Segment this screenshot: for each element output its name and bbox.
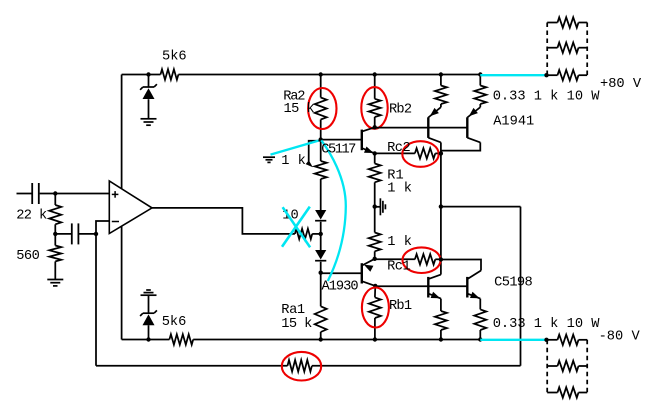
label 15 k (Ra1): [281, 317, 312, 332]
label 1 k (R1): [387, 182, 412, 197]
label 10: [282, 209, 298, 224]
node Rb2/C5117 collector: [373, 125, 377, 129]
pot wiper arrow: [306, 141, 320, 168]
node +80 box: [544, 73, 548, 77]
transistor A1930 Q2: [362, 259, 376, 286]
node R1/ground tap: [373, 204, 377, 208]
resistor Rc2: [415, 148, 435, 158]
label 5k6: [162, 50, 187, 65]
red circle Ra2: [308, 88, 336, 129]
capacitor input: [32, 183, 39, 204]
wire Rb1 leads: [374, 286, 376, 340]
resistor Rb1: [369, 297, 381, 318]
wire op-amp output: [152, 208, 295, 234]
transistor C5198 Q5: [428, 275, 441, 299]
wire 560 leads: [54, 234, 56, 279]
resistor 5k6 (bottom): [169, 334, 193, 344]
label C5198: [494, 276, 532, 291]
svg-text:1 k: 1 k: [387, 235, 412, 250]
transistor A1941 Q4: [441, 107, 480, 150]
svg-text:Rc2: Rc2: [387, 141, 410, 156]
dashed box -80 parallel resistors: [547, 340, 587, 393]
resistor top-box row1: [547, 17, 587, 27]
node top rail T2: [478, 72, 482, 76]
resistor 0.33 top-box row3: [547, 70, 587, 80]
svg-text:560: 560: [16, 249, 39, 264]
red circle Rb1: [362, 288, 389, 328]
red circle feedback resistor: [282, 352, 321, 381]
node output junction: [439, 204, 443, 208]
wire top +rail: [122, 74, 161, 76]
wire cap to op-amp +: [40, 193, 110, 195]
resistor T3 emitter: [435, 311, 447, 330]
label Ra1: [281, 303, 305, 318]
wire D1 to node: [320, 222, 322, 234]
ground below top zener: [141, 119, 157, 125]
wire Ra2 leads: [320, 75, 322, 140]
wire C5198 base bus: [375, 285, 467, 287]
label C5117: [321, 143, 356, 158]
label 0.33 1 k 10 W (bottom): [493, 317, 601, 332]
wire A1930 base: [321, 272, 362, 274]
label Rb1: [389, 299, 412, 314]
cyan wire pot to ground: [271, 141, 319, 155]
wire 10 ohm to node: [312, 233, 321, 235]
svg-text:1 k: 1 k: [387, 182, 412, 197]
wire feedback bottom left: [96, 365, 288, 367]
node 22k/560/cap2: [53, 232, 57, 236]
resistor Rc1: [415, 254, 435, 264]
svg-text:5k6: 5k6: [162, 50, 187, 65]
label Rb2: [389, 102, 412, 117]
label 1 k (pot): [281, 154, 306, 169]
wire zener2 top lead: [148, 295, 150, 313]
diode D1: [315, 210, 326, 221]
resistor 10 (crossed out): [295, 229, 312, 239]
wire T3 emitter leads: [440, 299, 442, 340]
dashed box +80 parallel resistors: [547, 23, 587, 76]
label 0.33 1 k 10 W (top): [493, 90, 601, 105]
transistor driver Q3: [428, 107, 441, 153]
node Rc1/output collectors: [439, 257, 443, 261]
transistor C5117 Q1: [362, 127, 375, 153]
red circle Rc1: [403, 247, 441, 273]
label Rc2: [387, 141, 410, 156]
label Rc1: [387, 260, 410, 275]
wire D2 to node2: [320, 262, 322, 273]
transistor C5198 Q6: [441, 260, 481, 299]
label Ra2: [283, 89, 305, 104]
wire driver base bus: [375, 127, 468, 129]
resistor 0.33 bottom-box row1: [547, 335, 587, 345]
node Rc2/driver collectors: [439, 151, 443, 155]
svg-text:Rb2: Rb2: [389, 102, 412, 117]
ground 1 k (pot): [263, 157, 275, 162]
svg-text:22 k: 22 k: [16, 209, 47, 224]
label A1941: [493, 115, 534, 130]
svg-text:15 k: 15 k: [281, 317, 312, 332]
wire Rb2 leads: [374, 75, 376, 128]
wire feedback bottom right: [312, 365, 521, 367]
resistor 1 k (lower): [369, 233, 381, 252]
node top rail Rb2: [373, 72, 377, 76]
wire cap2 to node: [79, 233, 97, 235]
node zener top: [146, 72, 150, 76]
wire feedback right vertical: [520, 207, 522, 366]
node Ra2 bottom / C5117 base: [319, 137, 323, 141]
node top rail T1: [439, 72, 443, 76]
wire 1k lower leads: [374, 207, 376, 259]
cyan X cross over 10 ohm: [282, 207, 310, 248]
label 1 k (lower): [387, 235, 412, 250]
cyan wire -80 rail: [480, 339, 546, 341]
wire top +rail right: [178, 74, 480, 76]
label 560: [16, 249, 39, 264]
svg-text:5k6: 5k6: [162, 315, 187, 330]
svg-text:C5198: C5198: [494, 276, 532, 291]
resistor 560: [49, 246, 61, 262]
label R1: [387, 169, 403, 184]
resistor 5k6 (top): [161, 69, 179, 79]
resistor R1 1 k: [369, 164, 381, 183]
svg-text:Rc1: Rc1: [387, 260, 410, 275]
node -80 box: [544, 338, 548, 342]
resistor bottom-box row3: [547, 387, 587, 397]
svg-text:A1930: A1930: [322, 279, 359, 294]
wire zener1 to ground: [148, 99, 150, 119]
wire Rc2 left: [375, 152, 415, 154]
resistor feedback (circled): [288, 360, 312, 372]
resistor 0.33 T4 emitter: [474, 309, 486, 330]
svg-text:C5117: C5117: [321, 143, 356, 158]
wire zener2 to rail: [148, 325, 150, 339]
wire T4 emitter leads: [479, 299, 481, 340]
resistor 0.33 T2 emitter: [474, 86, 486, 105]
wire bottom -rail left: [122, 339, 170, 341]
resistor Ra1 15 k: [315, 306, 327, 332]
wire T1 emitter lead: [440, 75, 442, 108]
wire C5117 base: [321, 139, 362, 141]
wire Rc1 right: [435, 258, 441, 260]
svg-text:-80 V: -80 V: [599, 329, 641, 344]
node feedback/minus input: [94, 232, 98, 236]
node bottom rail Rb1: [373, 337, 377, 341]
ground sideways (R1 tap): [375, 198, 386, 215]
wire Ra1 leads: [320, 273, 322, 340]
svg-text:+80 V: +80 V: [600, 77, 642, 92]
resistor top-box row2: [547, 43, 587, 53]
cyan arc annotation: [321, 140, 346, 281]
label 22 k: [16, 209, 47, 224]
node bottom zener: [146, 337, 150, 341]
resistor bottom-box row2: [547, 361, 587, 371]
svg-text:0.33 1 k 10 W: 0.33 1 k 10 W: [493, 317, 601, 332]
wire left vertical (rail to bottom): [121, 75, 123, 340]
wire cap2 left lead: [55, 233, 72, 235]
wire pot leads: [320, 140, 322, 210]
wire node to D2: [320, 234, 322, 250]
zener diode (bottom rail): [140, 310, 157, 325]
resistor 22 k: [49, 205, 61, 224]
trimmer 1 k (pot): [315, 161, 327, 179]
wire center vertical: [440, 153, 442, 274]
node C5117 emitter: [373, 151, 377, 155]
zener diode (top rail): [140, 84, 157, 99]
node input/22k: [53, 191, 57, 195]
svg-text:15 k: 15 k: [284, 102, 315, 117]
svg-text:A1941: A1941: [493, 115, 534, 130]
wire bottom -rail right: [193, 339, 480, 341]
node A1930 collector / Rb1: [373, 284, 377, 288]
label A1930: [322, 279, 359, 294]
label 15 k (Ra2): [284, 102, 315, 117]
wire T2 emitter lead: [479, 75, 481, 108]
resistor Rb2: [369, 99, 381, 117]
node bottom rail Ra1: [319, 337, 323, 341]
ground above bottom zener: [141, 290, 157, 295]
node bottom rail T4: [478, 337, 482, 341]
wire zener1 lead: [148, 75, 150, 88]
wire 22k leads: [54, 194, 56, 234]
label 5k6 (bottom): [162, 315, 187, 330]
resistor T1 emitter: [435, 86, 447, 105]
wire Rc2 right: [435, 152, 441, 154]
label -80 V: [599, 329, 641, 344]
wire Rc1 left: [375, 258, 415, 260]
node A1930 base: [319, 271, 323, 275]
diode D2: [315, 250, 326, 261]
wire feedback down-left: [95, 234, 97, 366]
svg-text:0.33 1 k 10 W: 0.33 1 k 10 W: [493, 90, 601, 105]
node diodes/10 ohm: [319, 232, 323, 236]
node A1930 emitter: [373, 257, 377, 261]
svg-text:Ra1: Ra1: [281, 303, 305, 318]
wire R1 leads: [374, 153, 376, 206]
node top rail Ra2: [319, 72, 323, 76]
node bottom rail T3: [439, 337, 443, 341]
red circle Rb2: [361, 87, 387, 129]
wire to op-amp - input: [96, 221, 109, 234]
svg-text:Rb1: Rb1: [389, 299, 412, 314]
ground below 560: [47, 280, 63, 286]
op-amp U1: [109, 181, 152, 234]
wire output to feedback: [441, 206, 521, 208]
red circle Rc2: [402, 141, 438, 167]
wire input stub: [17, 193, 32, 195]
svg-text:1 k: 1 k: [281, 154, 306, 169]
resistor Ra2 15 k: [315, 98, 327, 120]
label +80 V: [600, 77, 642, 92]
capacitor to inverting input: [72, 223, 79, 244]
cyan wire +80 rail: [480, 74, 546, 76]
